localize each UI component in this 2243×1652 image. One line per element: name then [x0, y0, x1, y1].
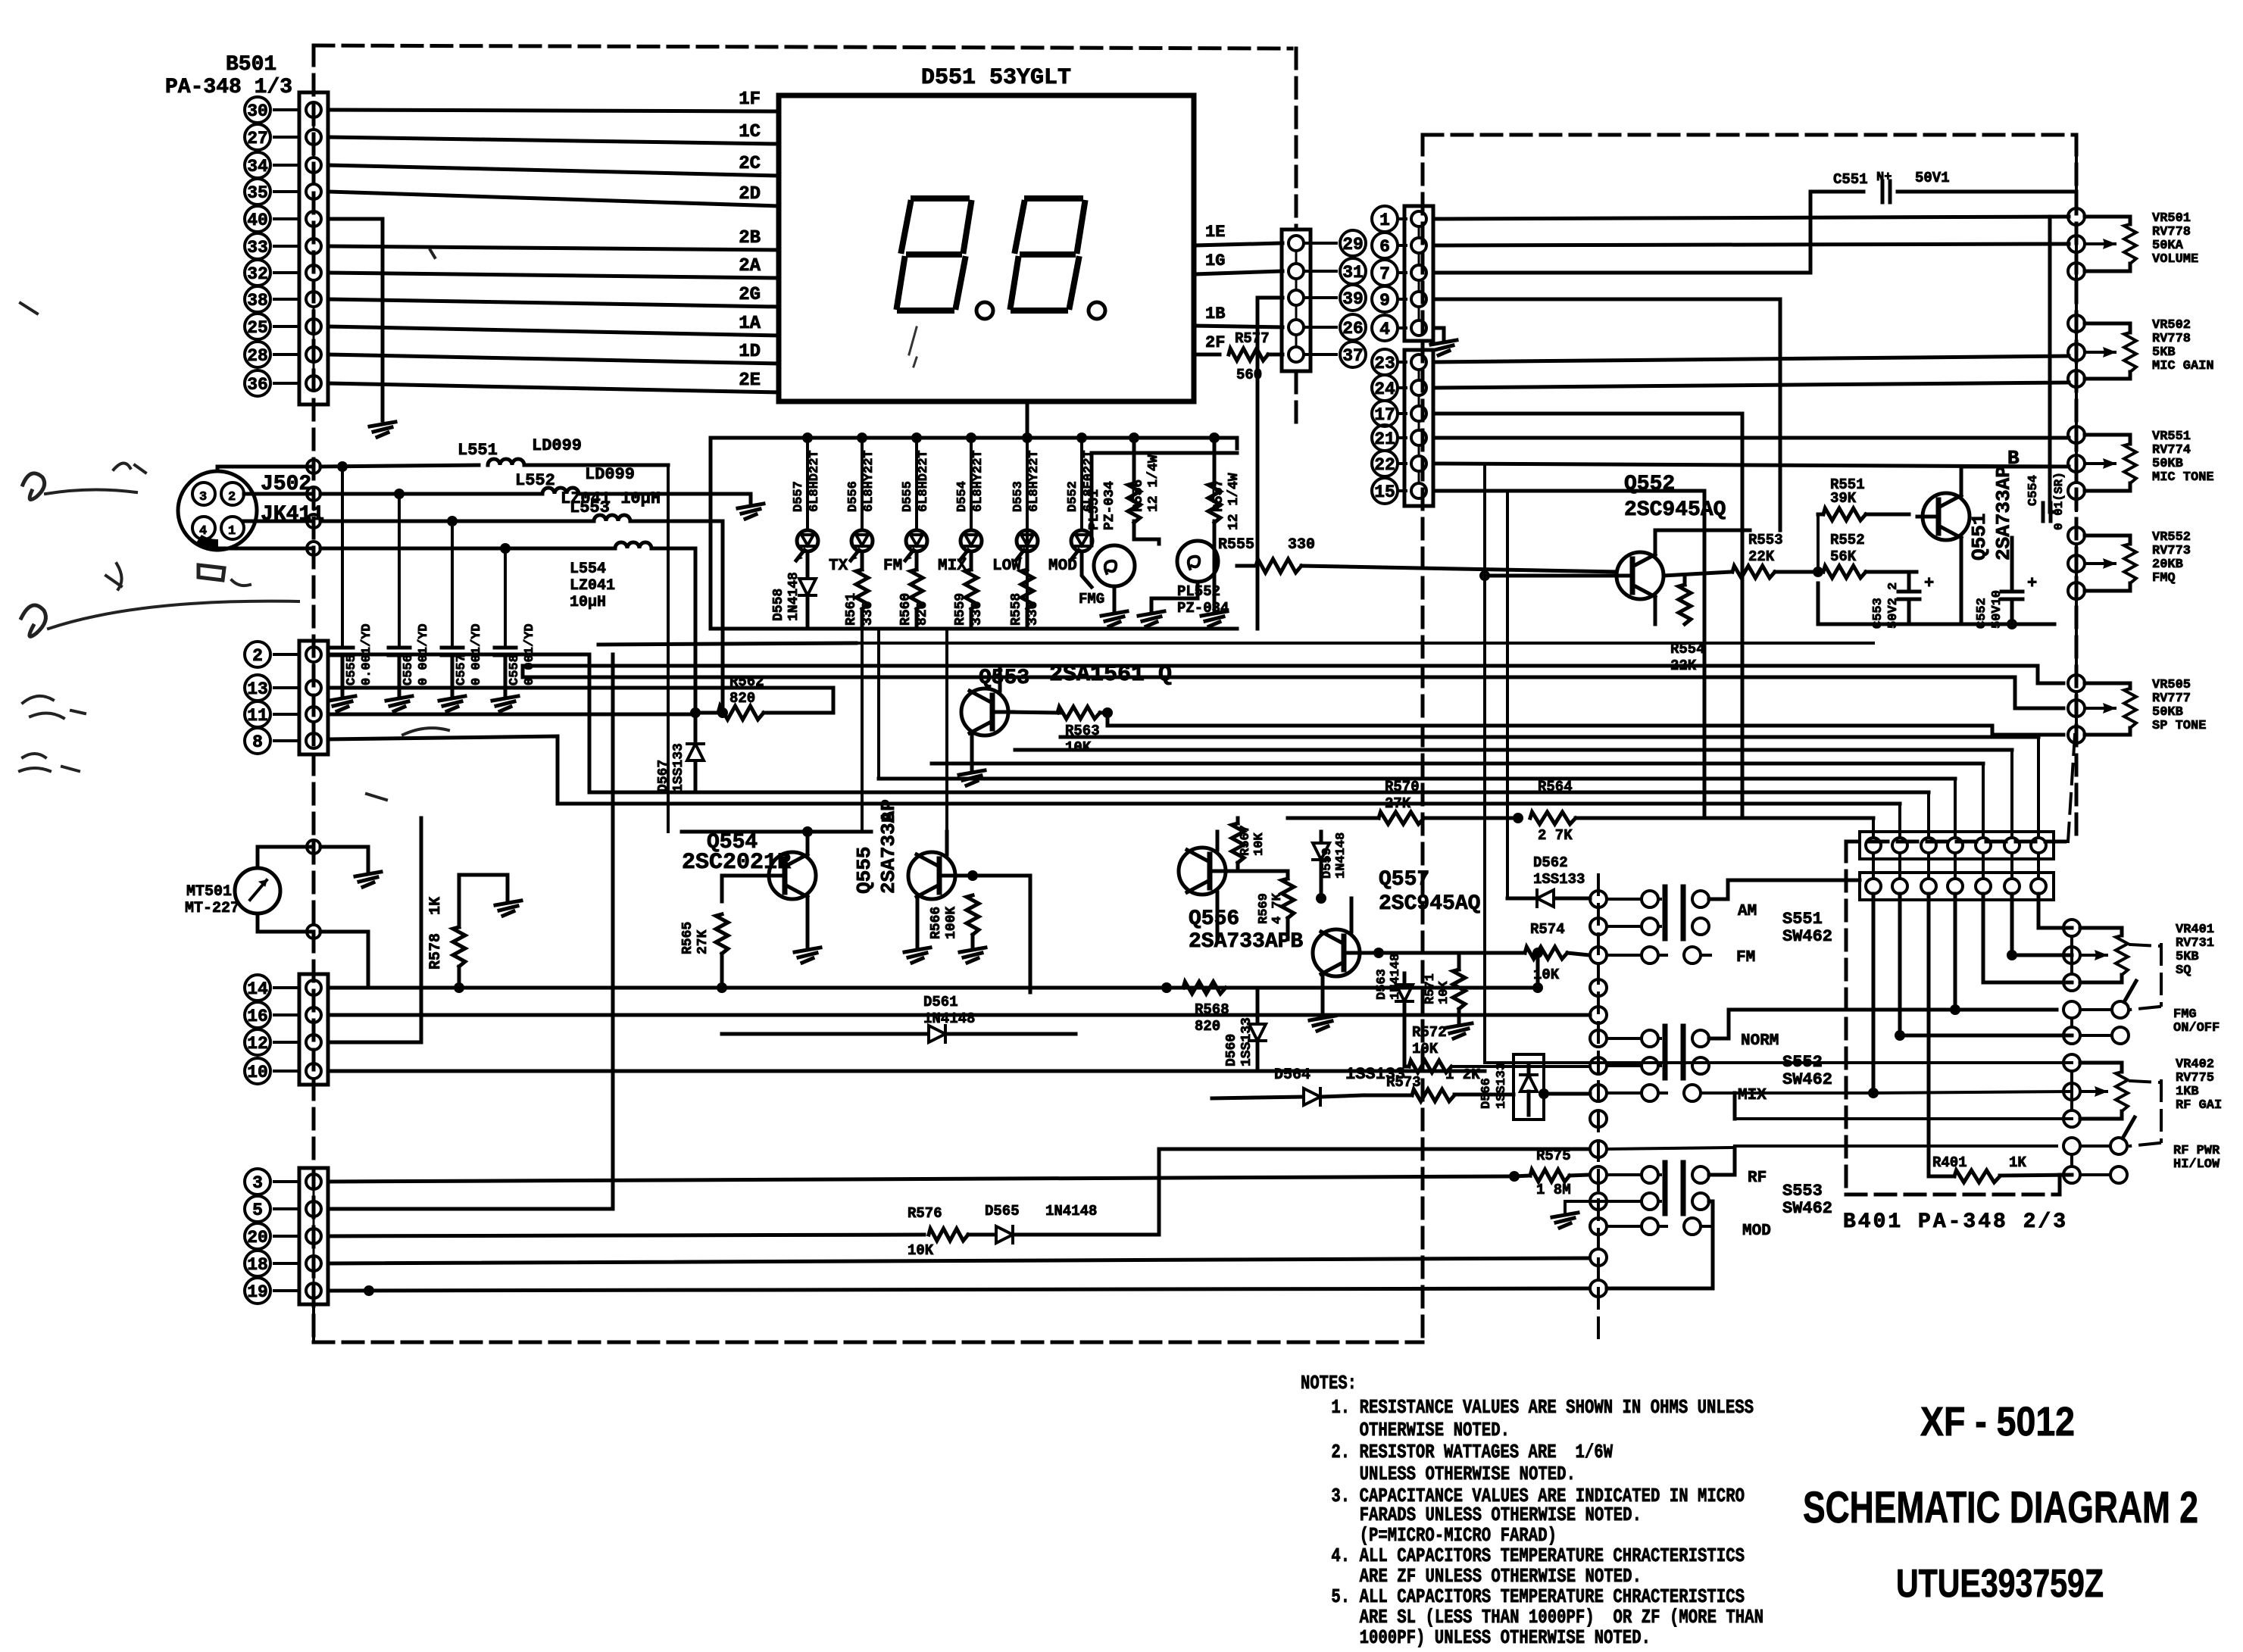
svg-text:D552: D552 — [1066, 481, 1080, 512]
wires J502 to bus — [217, 467, 314, 550]
wire pin22 — [1435, 464, 2069, 467]
capacitor C557 0 001/YD — [439, 516, 484, 711]
resistor R401 1K — [1932, 1154, 2072, 1182]
pen annotation small tick — [430, 250, 435, 258]
resistor R556 12 1/4W — [1128, 433, 1161, 544]
svg-text:1SS133: 1SS133 — [1239, 1017, 1254, 1066]
resistor R561 330 — [844, 554, 876, 629]
wire pin15 — [1435, 491, 1704, 818]
svg-text:FM: FM — [883, 557, 902, 575]
svg-text:330: 330 — [1288, 536, 1315, 554]
dashed bracket VR401-FMG — [2130, 945, 2161, 1010]
resistor R568 820 — [1161, 982, 1257, 1035]
wire row3 L553 — [320, 498, 610, 521]
transistor Q555 2SA733AP B — [853, 799, 961, 963]
lamp PL551 PZ-034 — [1079, 481, 1135, 626]
svg-text:LZ041 10μH: LZ041 10μH — [561, 489, 661, 508]
svg-text:6L8HD22T: 6L8HD22T — [917, 450, 931, 512]
module border B501 dashed box — [314, 45, 1423, 1342]
wire lamp drop 2b — [945, 629, 948, 854]
svg-text:20: 20 — [247, 1228, 268, 1248]
wire pin9 bus — [1435, 299, 1780, 530]
diode D562 1SS133 — [1507, 854, 1590, 907]
svg-text:R559: R559 — [953, 593, 968, 626]
svg-text:SQ: SQ — [2176, 963, 2191, 978]
inductor L552 LD099 — [542, 465, 764, 519]
svg-text:R577: R577 — [1235, 330, 1270, 347]
svg-text:1: 1 — [228, 524, 236, 539]
svg-text:+: + — [2027, 574, 2037, 593]
wire pin12 row — [328, 818, 421, 1042]
lamp inner box — [1092, 453, 1237, 545]
svg-text:UTUE393759Z: UTUE393759Z — [1896, 1562, 2104, 1606]
svg-text:12 1/4W: 12 1/4W — [1146, 454, 1161, 512]
svg-text:VR502: VR502 — [2152, 318, 2191, 333]
diode D566 1SS133 — [1479, 1054, 1590, 1120]
svg-text:C554: C554 — [2026, 475, 2041, 506]
svg-text:D556: D556 — [846, 481, 861, 512]
svg-text:RV777: RV777 — [2152, 692, 2191, 706]
resistor R560 820 — [898, 554, 930, 629]
svg-text:RV774: RV774 — [2152, 443, 2191, 458]
wire pin23 — [1435, 356, 2069, 362]
resistor R557 12 1/4W — [1201, 433, 1242, 626]
svg-text:10K: 10K — [1437, 981, 1451, 1004]
svg-text:D557: D557 — [792, 481, 806, 512]
svg-text:50KB: 50KB — [2152, 457, 2183, 471]
svg-text:5KB: 5KB — [2152, 345, 2176, 360]
wire mid vertical 3 — [0, 0, 1, 1]
display digit 2 decimal point — [1089, 302, 1105, 319]
svg-text:C556: C556 — [401, 654, 416, 685]
svg-text:R564: R564 — [1538, 779, 1573, 795]
wire vertical bus right — [2050, 217, 2054, 512]
transistor Q553 2SA1561 Q — [959, 662, 1172, 785]
resistor R575 1.8M — [1509, 1148, 1589, 1198]
svg-text:VOLUME: VOLUME — [2152, 252, 2198, 267]
svg-text:L554: L554 — [570, 561, 606, 578]
svg-text:20KB: 20KB — [2152, 557, 2183, 572]
svg-text:Q557: Q557 — [1379, 868, 1429, 892]
svg-text:12 1/4W: 12 1/4W — [1226, 473, 1242, 530]
svg-text:1D: 1D — [739, 342, 761, 362]
svg-text:R552: R552 — [1830, 532, 1865, 548]
wire row VR402 mix — [1710, 1091, 2072, 1093]
svg-text:1: 1 — [1379, 211, 1390, 230]
wire pin7 bus — [1435, 192, 1863, 273]
svg-text:R556: R556 — [1131, 479, 1146, 512]
svg-text:RV778: RV778 — [2152, 225, 2191, 239]
connector pins 3 5 20 18 19 — [245, 1168, 328, 1304]
wire Q557 base — [1360, 948, 1439, 958]
svg-text:8: 8 — [252, 732, 263, 752]
wire q554 base row — [682, 830, 871, 834]
svg-text:0 01(SR): 0 01(SR) — [2052, 472, 2066, 530]
svg-text:Q555: Q555 — [853, 847, 876, 894]
wire Q552 emitter — [1654, 597, 1657, 624]
svg-text:26: 26 — [1342, 319, 1364, 339]
svg-text:30: 30 — [247, 101, 268, 121]
svg-text:5. ALL CAPACITORS TEMPERATURE: 5. ALL CAPACITORS TEMPERATURE CHRACTERIS… — [1322, 1585, 1745, 1608]
wire display 1E — [1194, 223, 1282, 245]
pen annotation 5 — [20, 303, 37, 314]
switch wafer plain circles — [1590, 979, 1607, 1127]
svg-text:6L8HD22T: 6L8HD22T — [808, 450, 822, 512]
svg-text:PZ-034: PZ-034 — [1102, 481, 1117, 530]
svg-text:10K: 10K — [1412, 1041, 1439, 1057]
resistor R562 820 — [690, 673, 833, 720]
wire row VR402 top — [1485, 1061, 2072, 1064]
svg-text:R401: R401 — [1932, 1154, 1967, 1171]
wire row4 L554 — [320, 547, 615, 551]
svg-text:R558: R558 — [1009, 593, 1024, 626]
module border B401 dashed box — [1846, 842, 2065, 1194]
pen slash inside display — [909, 327, 917, 367]
svg-text:RF PWR: RF PWR — [2173, 1144, 2220, 1158]
svg-text:R578 1K: R578 1K — [427, 897, 445, 970]
svg-text:27K: 27K — [695, 929, 711, 954]
svg-text:3: 3 — [199, 490, 207, 504]
svg-text:820: 820 — [1195, 1018, 1220, 1035]
svg-text:MIX: MIX — [1738, 1087, 1767, 1104]
wire pin8 row — [328, 736, 1900, 804]
resistor R554 22K — [1670, 576, 1705, 674]
display D551 53YGLT label — [921, 65, 1071, 91]
diode D559 1N4148 — [1313, 832, 1348, 904]
resistor R571 10K — [1423, 953, 1472, 1038]
wire pin13 row — [328, 686, 833, 690]
svg-text:D565: D565 — [985, 1203, 1020, 1219]
resistor R570 27K — [1288, 779, 1518, 824]
svg-text:6L8HY22T: 6L8HY22T — [1027, 450, 1042, 512]
svg-text:1F: 1F — [739, 89, 761, 110]
svg-text:C557: C557 — [455, 654, 469, 685]
svg-text:NORM: NORM — [1741, 1032, 1779, 1050]
circled wire numbers 29 31 39 26 37 — [1304, 230, 1366, 367]
LED D557 6L8HD22T — [792, 433, 848, 575]
capacitor C556 0 001/YD — [386, 489, 431, 711]
resistor R563 10K — [1057, 707, 1113, 756]
pen annotation 3 — [198, 565, 250, 586]
svg-text:56K: 56K — [1830, 548, 1857, 565]
svg-text:21: 21 — [1374, 429, 1395, 449]
wire bus 894 — [523, 666, 2063, 708]
svg-text:50KB: 50KB — [2152, 705, 2183, 720]
svg-text:SW462: SW462 — [1782, 1199, 1832, 1218]
wire C552 row — [1818, 623, 2054, 626]
pen annotation 4 — [20, 696, 448, 800]
wire mid vertical 1 — [877, 629, 880, 779]
wire lamp drop 2 — [0, 0, 1, 1]
svg-text:VR402: VR402 — [2176, 1057, 2214, 1072]
svg-text:SW462: SW462 — [1782, 1070, 1832, 1089]
transistor Q552 2SC945AQ — [1611, 473, 1726, 599]
wire vertical x1990 — [1506, 491, 1509, 898]
svg-text:1C: 1C — [739, 122, 761, 142]
svg-text:XF - 5012: XF - 5012 — [1920, 1399, 2075, 1444]
svg-text:2D: 2D — [739, 184, 761, 205]
wire pin10 row — [328, 1070, 1485, 1073]
display digit 1 decimal point — [976, 302, 993, 319]
svg-text:MIC TONE: MIC TONE — [2152, 470, 2214, 485]
svg-text:1. RESISTANCE VALUES ARE SHOWN: 1. RESISTANCE VALUES ARE SHOWN IN OHMS U… — [1322, 1396, 1754, 1419]
meter MT501 MT-227 — [185, 840, 381, 988]
svg-text:2SC2021R: 2SC2021R — [682, 850, 791, 876]
wire lamp drop 1 — [861, 629, 864, 832]
svg-text:Q556: Q556 — [1189, 907, 1239, 931]
svg-text:R561: R561 — [844, 593, 859, 626]
potentiometer VR402 rf gain — [2063, 1054, 2222, 1127]
diode D567 1SS133 — [656, 714, 704, 792]
svg-text:9: 9 — [1379, 291, 1390, 311]
title UTUE393759Z — [1896, 1562, 2104, 1606]
wire staircase right 2 — [1061, 735, 2038, 739]
svg-text:22: 22 — [1374, 455, 1395, 475]
wire pin6 to VR501 wiper — [1435, 244, 2069, 245]
svg-text:R565: R565 — [680, 922, 695, 954]
svg-text:27: 27 — [247, 129, 268, 148]
title XF-5012 — [1920, 1399, 2075, 1444]
svg-text:29: 29 — [1342, 235, 1364, 255]
svg-text:D562: D562 — [1533, 854, 1568, 871]
resistor R558 330 — [1009, 554, 1041, 629]
lamp PL552 PZ-034 — [1139, 541, 1229, 626]
svg-text:FMG: FMG — [2173, 1007, 2197, 1022]
svg-text:LZ041: LZ041 — [570, 577, 615, 595]
svg-text:TX: TX — [829, 557, 848, 575]
svg-text:R570: R570 — [1385, 779, 1420, 795]
svg-text:2C: 2C — [739, 154, 761, 174]
notes text block — [1301, 1372, 1763, 1649]
svg-text:33: 33 — [247, 238, 268, 258]
connector strip mid (display to B551) — [1282, 230, 1310, 371]
svg-text:D553: D553 — [1011, 481, 1026, 512]
svg-text:D558: D558 — [771, 589, 786, 621]
svg-text:R566: R566 — [929, 907, 944, 939]
svg-text:VR505: VR505 — [2152, 678, 2191, 692]
svg-text:RV731: RV731 — [2176, 936, 2214, 951]
svg-text:6L8HY22T: 6L8HY22T — [971, 450, 986, 512]
svg-text:23: 23 — [1374, 354, 1395, 373]
transistor Q551 2SA733AP B — [1917, 447, 2020, 561]
svg-text:2SC945AQ: 2SC945AQ — [1379, 892, 1480, 916]
potentiometer VR551 mic tone — [2068, 426, 2214, 499]
wire Q556 emitter line — [1216, 939, 1220, 942]
svg-text:18: 18 — [247, 1255, 268, 1275]
svg-text:D560: D560 — [1224, 1034, 1239, 1066]
wire row VR402 bottom — [1735, 1093, 2072, 1119]
svg-text:C555: C555 — [345, 654, 359, 685]
svg-text:40: 40 — [247, 211, 268, 230]
svg-text:10K: 10K — [908, 1242, 934, 1259]
svg-text:VR401: VR401 — [2176, 923, 2214, 937]
svg-text:MOD: MOD — [1742, 1223, 1771, 1240]
switch FMG ON/OFF — [2063, 981, 2220, 1044]
svg-text:37: 37 — [1342, 346, 1364, 366]
svg-text:1N4148: 1N4148 — [1045, 1203, 1097, 1219]
svg-text:3: 3 — [252, 1173, 263, 1193]
wire B401 down 6 — [2007, 894, 2072, 960]
svg-text:2SC945AQ: 2SC945AQ — [1624, 498, 1726, 522]
svg-text:C551: C551 — [1833, 171, 1868, 188]
svg-text:Q552: Q552 — [1624, 473, 1675, 496]
svg-text:27K: 27K — [1385, 795, 1411, 812]
wire bus 879 — [523, 666, 2063, 683]
svg-text:HI/LOW: HI/LOW — [2173, 1157, 2220, 1172]
transistor Q554 2SC2021R — [682, 826, 820, 963]
svg-text:4. ALL CAPACITORS TEMPERATURE: 4. ALL CAPACITORS TEMPERATURE CHRACTERIS… — [1322, 1544, 1745, 1567]
resistor R577 560 — [1229, 330, 1282, 383]
junction circles on dashed line — [307, 460, 320, 555]
wire staircase right 4 — [932, 762, 1983, 766]
svg-text:32: 32 — [247, 264, 268, 284]
title SCHEMATIC DIAGRAM 2 — [1803, 1483, 2198, 1532]
svg-text:SCHEMATIC DIAGRAM 2: SCHEMATIC DIAGRAM 2 — [1803, 1483, 2198, 1532]
inductor L553 LZ041 10uH — [561, 489, 723, 713]
wire bus 1061 — [0, 0, 1, 1]
svg-text:LD099: LD099 — [585, 465, 635, 484]
svg-text:50V1: 50V1 — [1915, 170, 1950, 186]
switch RF PWR HI/LOW — [2063, 1117, 2220, 1183]
resistor R567 10K — [1232, 818, 1267, 871]
wire B401 down 4 — [1950, 894, 1960, 1015]
wire vertical x1960 — [1483, 464, 1486, 1063]
LED D554 6L8HY22T — [955, 433, 1021, 575]
svg-text:S551: S551 — [1782, 910, 1823, 929]
wire from strip pin39 down — [1257, 298, 1282, 629]
wire bus 851 — [598, 643, 856, 645]
capacitor C558 0 001/YD — [492, 543, 537, 711]
svg-text:L551: L551 — [458, 441, 498, 460]
svg-text:1A: 1A — [739, 314, 761, 334]
resistor R564 2.7K — [1513, 779, 1873, 844]
connector B501 with pins 30 27 34 35 40 33 32 38 25 28 36 — [245, 92, 328, 404]
svg-text:LD099: LD099 — [532, 436, 582, 455]
svg-text:14: 14 — [247, 979, 268, 999]
transistor Q557 2SC945AQ — [1310, 868, 1480, 1031]
svg-text:D555: D555 — [901, 481, 915, 512]
svg-text:1N4148: 1N4148 — [923, 1010, 975, 1027]
svg-text:(P=MICRO-MICRO FARAD): (P=MICRO-MICRO FARAD) — [1322, 1524, 1557, 1547]
svg-text:R557: R557 — [1211, 479, 1226, 512]
switch wafer dashed line — [1597, 875, 1600, 1344]
wire Q551 emitter down — [1818, 538, 1961, 624]
jack J502 JK411 — [178, 471, 324, 550]
svg-text:820: 820 — [729, 690, 755, 707]
svg-text:1K: 1K — [2009, 1154, 2026, 1171]
svg-text:15: 15 — [1374, 482, 1395, 502]
wires B501 to display segment pins — [328, 89, 779, 392]
svg-text:1 2K: 1 2K — [1445, 1066, 1480, 1083]
wire pin20 row — [328, 1149, 1589, 1259]
wire pin5 row — [328, 654, 613, 1209]
capacitor C554 0.01(SR) — [2026, 472, 2066, 530]
svg-text:1E: 1E — [1205, 223, 1225, 242]
svg-text:D559: D559 — [1320, 848, 1335, 879]
resistor R566 100K — [929, 870, 1030, 992]
svg-text:39K: 39K — [1830, 490, 1857, 507]
potentiometer VR505 sp tone — [2068, 675, 2206, 743]
svg-text:D551 53YGLT: D551 53YGLT — [921, 65, 1071, 91]
svg-text:FMQ: FMQ — [2152, 571, 2176, 586]
svg-text:25: 25 — [247, 318, 268, 338]
wire pin40 to ground — [328, 219, 395, 437]
svg-text:10K: 10K — [1065, 739, 1092, 756]
svg-text:1SS133: 1SS133 — [671, 743, 686, 792]
svg-text:4: 4 — [1379, 320, 1390, 339]
svg-text:ON/OFF: ON/OFF — [2173, 1021, 2220, 1035]
svg-text:820: 820 — [915, 601, 930, 626]
resistor R569 4.7K — [1226, 871, 1294, 939]
svg-text:NOTES:: NOTES: — [1301, 1372, 1357, 1394]
diode D563 1N4148 — [1375, 954, 1413, 1065]
wire pin3 row — [328, 1176, 1514, 1182]
svg-text:R574: R574 — [1530, 921, 1565, 938]
capacitor C553 50V2 — [1871, 572, 1934, 629]
svg-text:100K: 100K — [944, 907, 959, 939]
wire chain vr401 area — [0, 0, 1, 1]
LED D555 6L8HD22T — [901, 433, 967, 575]
svg-text:D564: D564 — [1274, 1066, 1310, 1084]
svg-text:330: 330 — [861, 601, 876, 626]
svg-text:2A: 2A — [739, 256, 761, 276]
connector pins 2 13 11 8 — [245, 641, 328, 754]
wire B401 down 2 — [1895, 894, 2072, 1041]
LED D552 6L8E022T — [1066, 433, 1096, 561]
svg-text:D563: D563 — [1375, 969, 1389, 1000]
svg-text:R567: R567 — [1239, 825, 1253, 856]
switch S551 SW462 AM FM — [1590, 880, 1860, 967]
pen annotation 1 — [23, 463, 145, 499]
svg-text:28: 28 — [247, 346, 268, 366]
capacitor C551 50V1 — [1833, 170, 2076, 202]
svg-text:AM: AM — [1738, 903, 1757, 920]
resistor R555 330 — [1218, 536, 1617, 573]
wire junction 1080 — [0, 0, 1, 1]
svg-text:1B: 1B — [1205, 304, 1225, 323]
svg-text:R560: R560 — [898, 593, 914, 626]
resistor R574 10K — [1439, 921, 1589, 983]
resistor R553 22K — [1664, 532, 1818, 578]
display D551 box — [779, 95, 1194, 401]
svg-text:1G: 1G — [1205, 251, 1225, 270]
wire pin19 row — [328, 1285, 1589, 1296]
svg-text:13: 13 — [247, 679, 268, 699]
svg-text:2 7K: 2 7K — [1538, 827, 1573, 844]
resistor R565 27K — [680, 876, 762, 993]
connector B551-side pins 1 6 7 9 4 23 24 17 21 22 15 — [1372, 206, 1433, 506]
wire display 1G — [1194, 251, 1282, 274]
dashed link pots — [2068, 151, 2076, 842]
svg-text:B: B — [879, 812, 900, 823]
inductor L554 LZ041 10uH — [570, 542, 695, 713]
wire B401 down 7 — [2038, 894, 2072, 928]
svg-text:UNLESS OTHERWISE NOTED.: UNLESS OTHERWISE NOTED. — [1322, 1463, 1576, 1485]
dashed bracket VR402-RFPWR — [2130, 1081, 2161, 1146]
svg-text:7: 7 — [1379, 264, 1390, 284]
svg-text:R555: R555 — [1218, 536, 1254, 554]
wire Q552 collector — [1655, 530, 1750, 554]
dashed below connector — [312, 1304, 315, 1341]
svg-text:10: 10 — [247, 1063, 268, 1082]
svg-text:36: 36 — [247, 375, 268, 395]
svg-text:D566: D566 — [1479, 1078, 1494, 1109]
wire B401 down 1 — [1868, 894, 1879, 1098]
svg-text:FMG: FMG — [1079, 591, 1104, 607]
wire staircase right 3 — [1015, 748, 2012, 752]
svg-text:1SS133: 1SS133 — [1495, 1063, 1509, 1109]
svg-text:2: 2 — [252, 646, 263, 666]
